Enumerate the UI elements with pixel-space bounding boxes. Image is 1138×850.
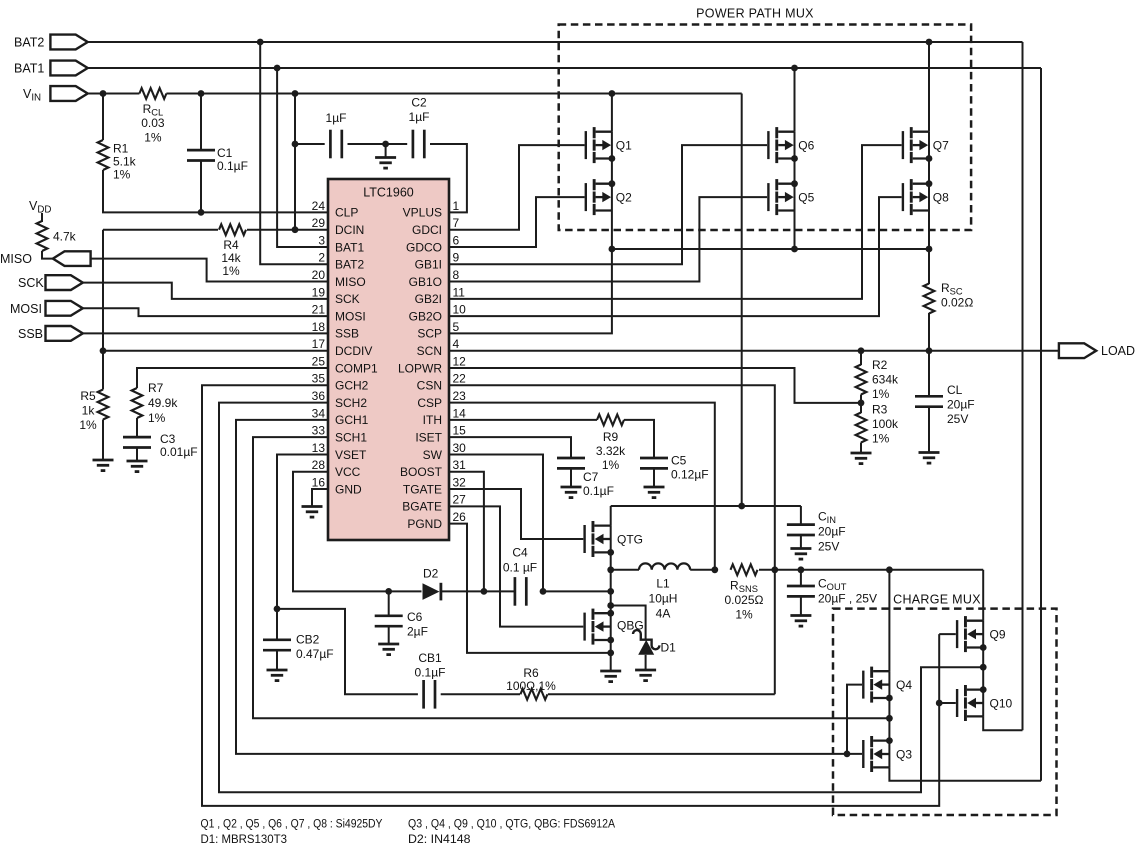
svg-text:30: 30: [453, 441, 467, 455]
svg-text:29: 29: [312, 216, 326, 230]
wire BAT1 to pin 3: [277, 68, 328, 247]
wire QTG drain line: [611, 505, 801, 507]
pin 8 GB1O: [409, 268, 460, 289]
wire R1 bottom lead to CLP: [103, 170, 328, 212]
pin 30 SW: [423, 441, 467, 462]
svg-text:12: 12: [453, 354, 467, 368]
wire C3 to ground: [136, 448, 138, 462]
label CIN value: [818, 510, 846, 554]
junction VIN-R1: [100, 90, 107, 97]
capacitor C5: [640, 458, 668, 468]
transistor Q6: [767, 127, 794, 163]
svg-text:MISO: MISO: [0, 252, 32, 266]
ground below CL: [919, 453, 940, 464]
junction Q4 source: [886, 695, 893, 702]
label C2 value: [409, 96, 430, 125]
pin 24 CLP: [312, 199, 359, 220]
svg-text:D1: MBRS130T3: D1: MBRS130T3: [201, 832, 288, 846]
wire SCH2 route: [219, 403, 983, 793]
label COUT value: [818, 577, 877, 606]
ground below QBG: [600, 671, 621, 682]
pin 17 DCDIV: [312, 337, 373, 358]
svg-text:0.12µF: 0.12µF: [671, 468, 709, 482]
pin 19 SCK: [312, 285, 360, 306]
svg-text:19: 19: [312, 285, 326, 299]
svg-text:SCK: SCK: [335, 292, 360, 306]
junction CB2 tap: [274, 606, 281, 613]
svg-text:0.1µF: 0.1µF: [583, 484, 614, 498]
junction L1-RSNS CSP tap: [711, 566, 718, 573]
svg-text:Q5: Q5: [798, 191, 814, 205]
junction R2-R3 LOPWR: [858, 400, 865, 407]
wire VCC route: [293, 472, 422, 592]
wire CIN to ground: [800, 535, 802, 549]
svg-text:BAT1: BAT1: [335, 240, 364, 254]
dashed box CHARGE MUX: [833, 609, 1057, 815]
wire R1 top lead: [102, 94, 104, 141]
svg-text:49.9k: 49.9k: [148, 396, 178, 410]
svg-text:C1: C1: [217, 146, 233, 160]
wire CB2 branch to CB1 line: [277, 609, 418, 694]
svg-text:100k: 100k: [872, 417, 899, 431]
svg-text:2: 2: [318, 251, 325, 265]
wire Q3 drain to BAT1: [889, 767, 1041, 780]
connector SSB: [46, 326, 83, 341]
pin 20 MISO: [312, 268, 366, 289]
svg-text:5: 5: [453, 320, 460, 334]
svg-text:100Ω,1%: 100Ω,1%: [506, 679, 556, 693]
wire Q9 drain feed: [982, 570, 984, 621]
connector VIN: [50, 86, 87, 101]
svg-text:0.025Ω: 0.025Ω: [725, 593, 764, 607]
svg-text:1k: 1k: [82, 404, 96, 418]
svg-text:1%: 1%: [735, 608, 753, 622]
ground below D1: [635, 670, 656, 681]
junction SW node L1: [607, 566, 614, 573]
svg-text:LOAD: LOAD: [1101, 344, 1135, 358]
svg-text:SSB: SSB: [335, 327, 359, 341]
ground below C3: [127, 461, 148, 472]
wire MISO route: [91, 259, 328, 282]
svg-text:25V: 25V: [818, 540, 839, 554]
pin 13 VSET: [312, 441, 367, 462]
junction VIN feed CIN line: [738, 503, 745, 510]
wire R7 to C3: [136, 418, 138, 437]
svg-text:COMP1: COMP1: [335, 361, 378, 375]
connector MISO (output): [53, 251, 91, 266]
junction Q10 gate tie: [936, 700, 943, 707]
wire DCIN left segment: [103, 229, 218, 231]
connector LOAD (output): [1059, 343, 1096, 358]
svg-text:C6: C6: [407, 610, 423, 624]
svg-text:SW: SW: [423, 448, 443, 462]
svg-text:VPLUS: VPLUS: [403, 206, 442, 220]
pin 28 VCC: [312, 458, 361, 479]
junction BAT1-Q6 drain: [791, 65, 798, 72]
svg-text:BAT2: BAT2: [335, 258, 364, 272]
wire BGATE route: [449, 506, 583, 626]
wire BAT2 to pin 2: [260, 42, 328, 264]
svg-text:1%: 1%: [113, 168, 131, 182]
svg-text:R9: R9: [603, 430, 619, 444]
svg-text:4.7k: 4.7k: [53, 230, 77, 244]
wire Q7-Q8 common source: [928, 159, 930, 184]
svg-text:LOPWR: LOPWR: [398, 361, 442, 375]
wire C7 to ground: [570, 468, 572, 487]
svg-text:1%: 1%: [148, 411, 166, 425]
wire Q10 drain to BAT2: [983, 716, 1022, 730]
ground below CB2: [267, 670, 288, 681]
junction Q10 source: [980, 686, 987, 693]
label C7 value: [583, 470, 614, 498]
pin 10 GB2O: [409, 303, 467, 324]
wire C1 bottom lead: [200, 161, 202, 213]
pin 18 SSB: [312, 320, 359, 341]
svg-text:20µF , 25V: 20µF , 25V: [818, 592, 877, 606]
wire VIN rail right: [166, 93, 741, 95]
junction SCH1 node: [886, 715, 893, 722]
svg-text:20: 20: [312, 268, 326, 282]
svg-text:31: 31: [453, 458, 467, 472]
svg-text:11: 11: [453, 285, 466, 299]
junction Q8 source: [926, 180, 933, 187]
svg-text:Q7: Q7: [933, 139, 949, 153]
wire GB1I to Q6 gate: [449, 145, 767, 264]
wire RSNS to output: [759, 569, 983, 571]
svg-text:Q2: Q2: [616, 191, 632, 205]
junction PGND at QBG: [607, 650, 614, 657]
svg-text:R3: R3: [872, 403, 888, 417]
junction Q9 source: [980, 644, 987, 651]
wire R5 to ground: [102, 420, 104, 461]
ground below C7: [561, 487, 582, 498]
junction C6 tap: [385, 588, 392, 595]
svg-text:C3: C3: [160, 432, 176, 446]
junction Q6 source: [791, 155, 798, 162]
svg-text:QTG: QTG: [617, 533, 643, 547]
svg-text:R7: R7: [148, 381, 164, 395]
svg-text:20µF: 20µF: [947, 398, 975, 412]
wire BAT2 rail: [88, 41, 1023, 43]
ground below CIN: [790, 549, 811, 560]
svg-text:Q3: Q3: [896, 748, 912, 762]
pin 34 GCH1: [312, 406, 369, 427]
junction VIN-C1: [198, 90, 205, 97]
svg-text:SCP: SCP: [417, 327, 442, 341]
svg-text:8: 8: [453, 268, 460, 282]
label R4 value: [221, 238, 241, 278]
svg-text:GDCO: GDCO: [406, 240, 442, 254]
svg-text:5.1k: 5.1k: [113, 155, 137, 169]
resistor RSC: [924, 284, 935, 314]
junction VIN-Q1 drain: [609, 90, 616, 97]
junction SW D1 tap: [607, 602, 614, 609]
svg-text:27: 27: [453, 493, 467, 507]
wire C1 top lead: [200, 94, 202, 151]
wire RSC bottom lead: [928, 313, 930, 351]
svg-text:D2: D2: [423, 567, 439, 581]
svg-text:1%: 1%: [872, 432, 890, 446]
svg-text:2µF: 2µF: [407, 625, 428, 639]
svg-text:GB1O: GB1O: [409, 275, 442, 289]
label R9 value: [596, 430, 626, 472]
svg-text:CB1: CB1: [418, 651, 442, 665]
pin 4 SCN: [417, 337, 460, 358]
svg-text:1%: 1%: [872, 387, 890, 401]
resistor R5: [98, 390, 109, 420]
svg-text:28: 28: [312, 458, 326, 472]
svg-text:22: 22: [453, 372, 467, 386]
pin 9 GB1I: [415, 251, 460, 272]
wire Q4 gate tie: [847, 685, 862, 754]
svg-text:ITH: ITH: [423, 413, 442, 427]
wire COUT top lead: [800, 570, 802, 586]
label R7 value: [148, 381, 178, 425]
transistor Q5: [767, 179, 794, 215]
wire Q8 drain to bus: [928, 211, 930, 250]
svg-text:GB2I: GB2I: [415, 292, 442, 306]
pin 21 MOSI: [312, 303, 366, 324]
wire GCH2 route: [202, 385, 939, 806]
IC U1 LTC1960 body: [328, 179, 449, 540]
svg-text:13: 13: [312, 441, 326, 455]
svg-text:DCDIV: DCDIV: [335, 344, 372, 358]
resistor R4: [219, 224, 246, 235]
pin 16 GND: [312, 475, 362, 496]
svg-text:ISET: ISET: [415, 430, 442, 444]
wire VIN feed down to CIN line: [741, 94, 743, 507]
pin 11 GB2I: [415, 285, 466, 306]
wire Q5 drain to bus: [794, 211, 796, 250]
junction QBG source: [607, 637, 614, 644]
svg-text:0.01µF: 0.01µF: [160, 445, 198, 459]
label L1 value: [649, 577, 678, 621]
capacitor 1uF bypass: [330, 130, 341, 159]
junction Q3 gate tie: [844, 751, 851, 758]
svg-text:GCH2: GCH2: [335, 379, 369, 393]
wire CSP route: [449, 403, 715, 570]
wire between caps: [348, 143, 408, 145]
svg-text:GB1I: GB1I: [415, 258, 442, 272]
svg-text:GND: GND: [335, 482, 362, 496]
wire PGND route: [449, 524, 611, 653]
pin 25 COMP1: [312, 354, 378, 375]
svg-text:R1: R1: [113, 142, 129, 156]
resistor RCL: [139, 88, 166, 99]
junction VIN rail tap: [292, 90, 299, 97]
svg-text:16: 16: [312, 475, 326, 489]
label C3 value: [160, 432, 198, 459]
pin 33 SCH1: [312, 424, 368, 445]
pin 27 BGATE: [402, 493, 466, 514]
pin 15 ISET: [415, 424, 466, 445]
svg-text:C7: C7: [583, 470, 599, 484]
label R3 value: [872, 403, 899, 446]
svg-text:1%: 1%: [144, 130, 162, 144]
wire C6 to ground: [388, 626, 390, 644]
junction DCDIV tap: [100, 347, 107, 354]
transistor QTG: [583, 521, 610, 557]
transistor Q3: [862, 736, 889, 772]
ground below C6: [378, 644, 399, 655]
svg-text:R6: R6: [523, 666, 539, 680]
wire SCH1 route: [253, 437, 889, 718]
pin 5 SCP: [417, 320, 459, 341]
wire D1 cathode tap: [611, 606, 646, 640]
svg-text:1µF: 1µF: [409, 110, 430, 124]
wire R2-R3 link: [860, 395, 862, 414]
svg-text:GB2O: GB2O: [409, 309, 442, 323]
wire Q4-Q3 common: [888, 698, 890, 741]
wire Q9 gate lead: [939, 633, 956, 635]
wire C5 to ground: [653, 468, 655, 487]
wire CIN top lead: [800, 506, 802, 525]
pin 31 BOOST: [400, 458, 466, 479]
wire Q6-Q5 common source: [794, 159, 796, 184]
svg-text:21: 21: [312, 303, 326, 317]
svg-text:1%: 1%: [602, 458, 620, 472]
transistor Q10: [956, 685, 983, 721]
junction bypass line left: [292, 141, 299, 148]
resistor R9: [597, 414, 624, 425]
capacitor C2: [413, 130, 424, 159]
svg-text:Q1 , Q2 , Q5 , Q6 , Q7 , Q8 :: Q1 , Q2 , Q5 , Q6 , Q7 , Q8 : Si4925DY: [201, 816, 383, 830]
svg-text:CSN: CSN: [417, 379, 442, 393]
svg-text:0.03: 0.03: [141, 116, 165, 130]
svg-text:VSET: VSET: [335, 448, 367, 462]
svg-text:VCC: VCC: [335, 465, 361, 479]
resistor RSNS: [731, 564, 758, 575]
svg-text:14: 14: [453, 406, 467, 420]
label CB2 value: [296, 633, 334, 662]
ground at GND pin: [302, 507, 323, 518]
ground below R5: [93, 460, 114, 471]
junction SW-C4: [540, 588, 547, 595]
label R6 value: [506, 666, 556, 693]
svg-text:SSB: SSB: [18, 327, 43, 341]
pin 23 CSP: [417, 389, 466, 410]
junction output Q4 feed: [886, 566, 893, 573]
label R5 value: [79, 389, 97, 432]
wire GB2I to Q7 gate: [449, 145, 902, 299]
wire TGATE route: [449, 489, 583, 539]
svg-text:SCN: SCN: [417, 344, 442, 358]
wire VIN rail left: [88, 93, 140, 95]
pin 35 GCH2: [312, 372, 369, 393]
wire Q2 drain to SCP bus: [449, 211, 612, 334]
svg-text:18: 18: [312, 320, 326, 334]
connector BAT2: [50, 35, 87, 50]
wire SW route: [449, 454, 543, 591]
wire R6 to CSN column: [548, 693, 775, 695]
wire CB2 to ground: [276, 650, 278, 670]
svg-text:C4: C4: [512, 546, 528, 560]
svg-text:10µH: 10µH: [649, 592, 678, 606]
svg-text:DCIN: DCIN: [335, 223, 364, 237]
svg-text:CSP: CSP: [417, 396, 442, 410]
wire ISET to C7: [449, 437, 571, 458]
label CB1 value: [415, 651, 446, 680]
svg-text:1µF: 1µF: [326, 111, 347, 125]
pin 14 ITH: [423, 406, 467, 427]
wire VSET route: [277, 454, 328, 639]
pin 3 BAT1: [318, 233, 364, 254]
wire VDD lead: [41, 213, 43, 222]
wire Q1 drain: [611, 94, 613, 132]
wire Q1-Q2 common source: [611, 159, 613, 184]
junction Q2 source: [609, 180, 616, 187]
svg-text:GDCI: GDCI: [412, 223, 442, 237]
wire CB1 to R6: [441, 693, 520, 695]
wire COUT to ground: [800, 596, 802, 615]
svg-text:0.1µF: 0.1µF: [217, 159, 248, 173]
ground below C5: [644, 487, 665, 498]
svg-text:D1: D1: [661, 641, 677, 655]
svg-text:BAT1: BAT1: [14, 62, 44, 76]
svg-text:0.47µF: 0.47µF: [296, 647, 334, 661]
label C6 value: [407, 610, 428, 639]
capacitor CB1: [424, 680, 435, 709]
wire Q9-Q10 common: [982, 648, 984, 690]
svg-text:32: 32: [453, 475, 467, 489]
svg-text:MISO: MISO: [335, 275, 366, 289]
connector SCK: [46, 275, 83, 290]
svg-text:25V: 25V: [947, 412, 968, 426]
ground bypass caps: [375, 158, 396, 169]
capacitor C6: [375, 616, 403, 626]
wire DCDIV pin line: [103, 350, 328, 352]
wire BAT1 rail: [88, 67, 1041, 69]
wire CL to ground: [928, 407, 930, 453]
pin 6 GDCO: [406, 233, 460, 254]
svg-text:1%: 1%: [222, 264, 240, 278]
svg-text:10: 10: [453, 303, 467, 317]
svg-text:Q4: Q4: [896, 678, 912, 692]
wire GND pin to ground: [312, 489, 328, 506]
wire COMP1 route: [137, 368, 328, 388]
junction load line R2: [858, 347, 865, 354]
svg-text:0.1 µF: 0.1 µF: [503, 561, 537, 575]
svg-text:Q1: Q1: [616, 139, 632, 153]
junction Q1 source: [609, 155, 616, 162]
ground below COUT: [790, 616, 811, 627]
capacitor CB2: [263, 640, 291, 650]
pin 32 TGATE: [403, 475, 466, 496]
svg-text:36: 36: [312, 389, 326, 403]
label RSNS value: [725, 579, 764, 622]
pin 29 DCIN: [312, 216, 365, 237]
junction BAT1 rail tap: [274, 65, 281, 72]
svg-text:Q6: Q6: [798, 139, 814, 153]
wire QTG drain: [610, 506, 612, 526]
svg-text:Q9: Q9: [990, 628, 1006, 642]
pin 1 VPLUS: [403, 199, 460, 220]
resistor R6: [520, 689, 547, 700]
wire GDCI to Q1 gate: [449, 145, 585, 230]
capacitor C1: [187, 150, 215, 160]
svg-text:0.02Ω: 0.02Ω: [941, 296, 973, 310]
wire R3 to ground: [860, 443, 862, 454]
wire Q6 drain: [794, 68, 796, 132]
svg-text:MOSI: MOSI: [335, 309, 366, 323]
diode D2: [423, 583, 515, 601]
pin 36 SCH2: [312, 389, 368, 410]
svg-text:7: 7: [453, 216, 460, 230]
svg-text:TGATE: TGATE: [403, 482, 442, 496]
svg-text:4: 4: [453, 337, 460, 351]
wire VIN to DCIN drop: [294, 94, 296, 230]
capacitor CIN: [787, 525, 815, 535]
